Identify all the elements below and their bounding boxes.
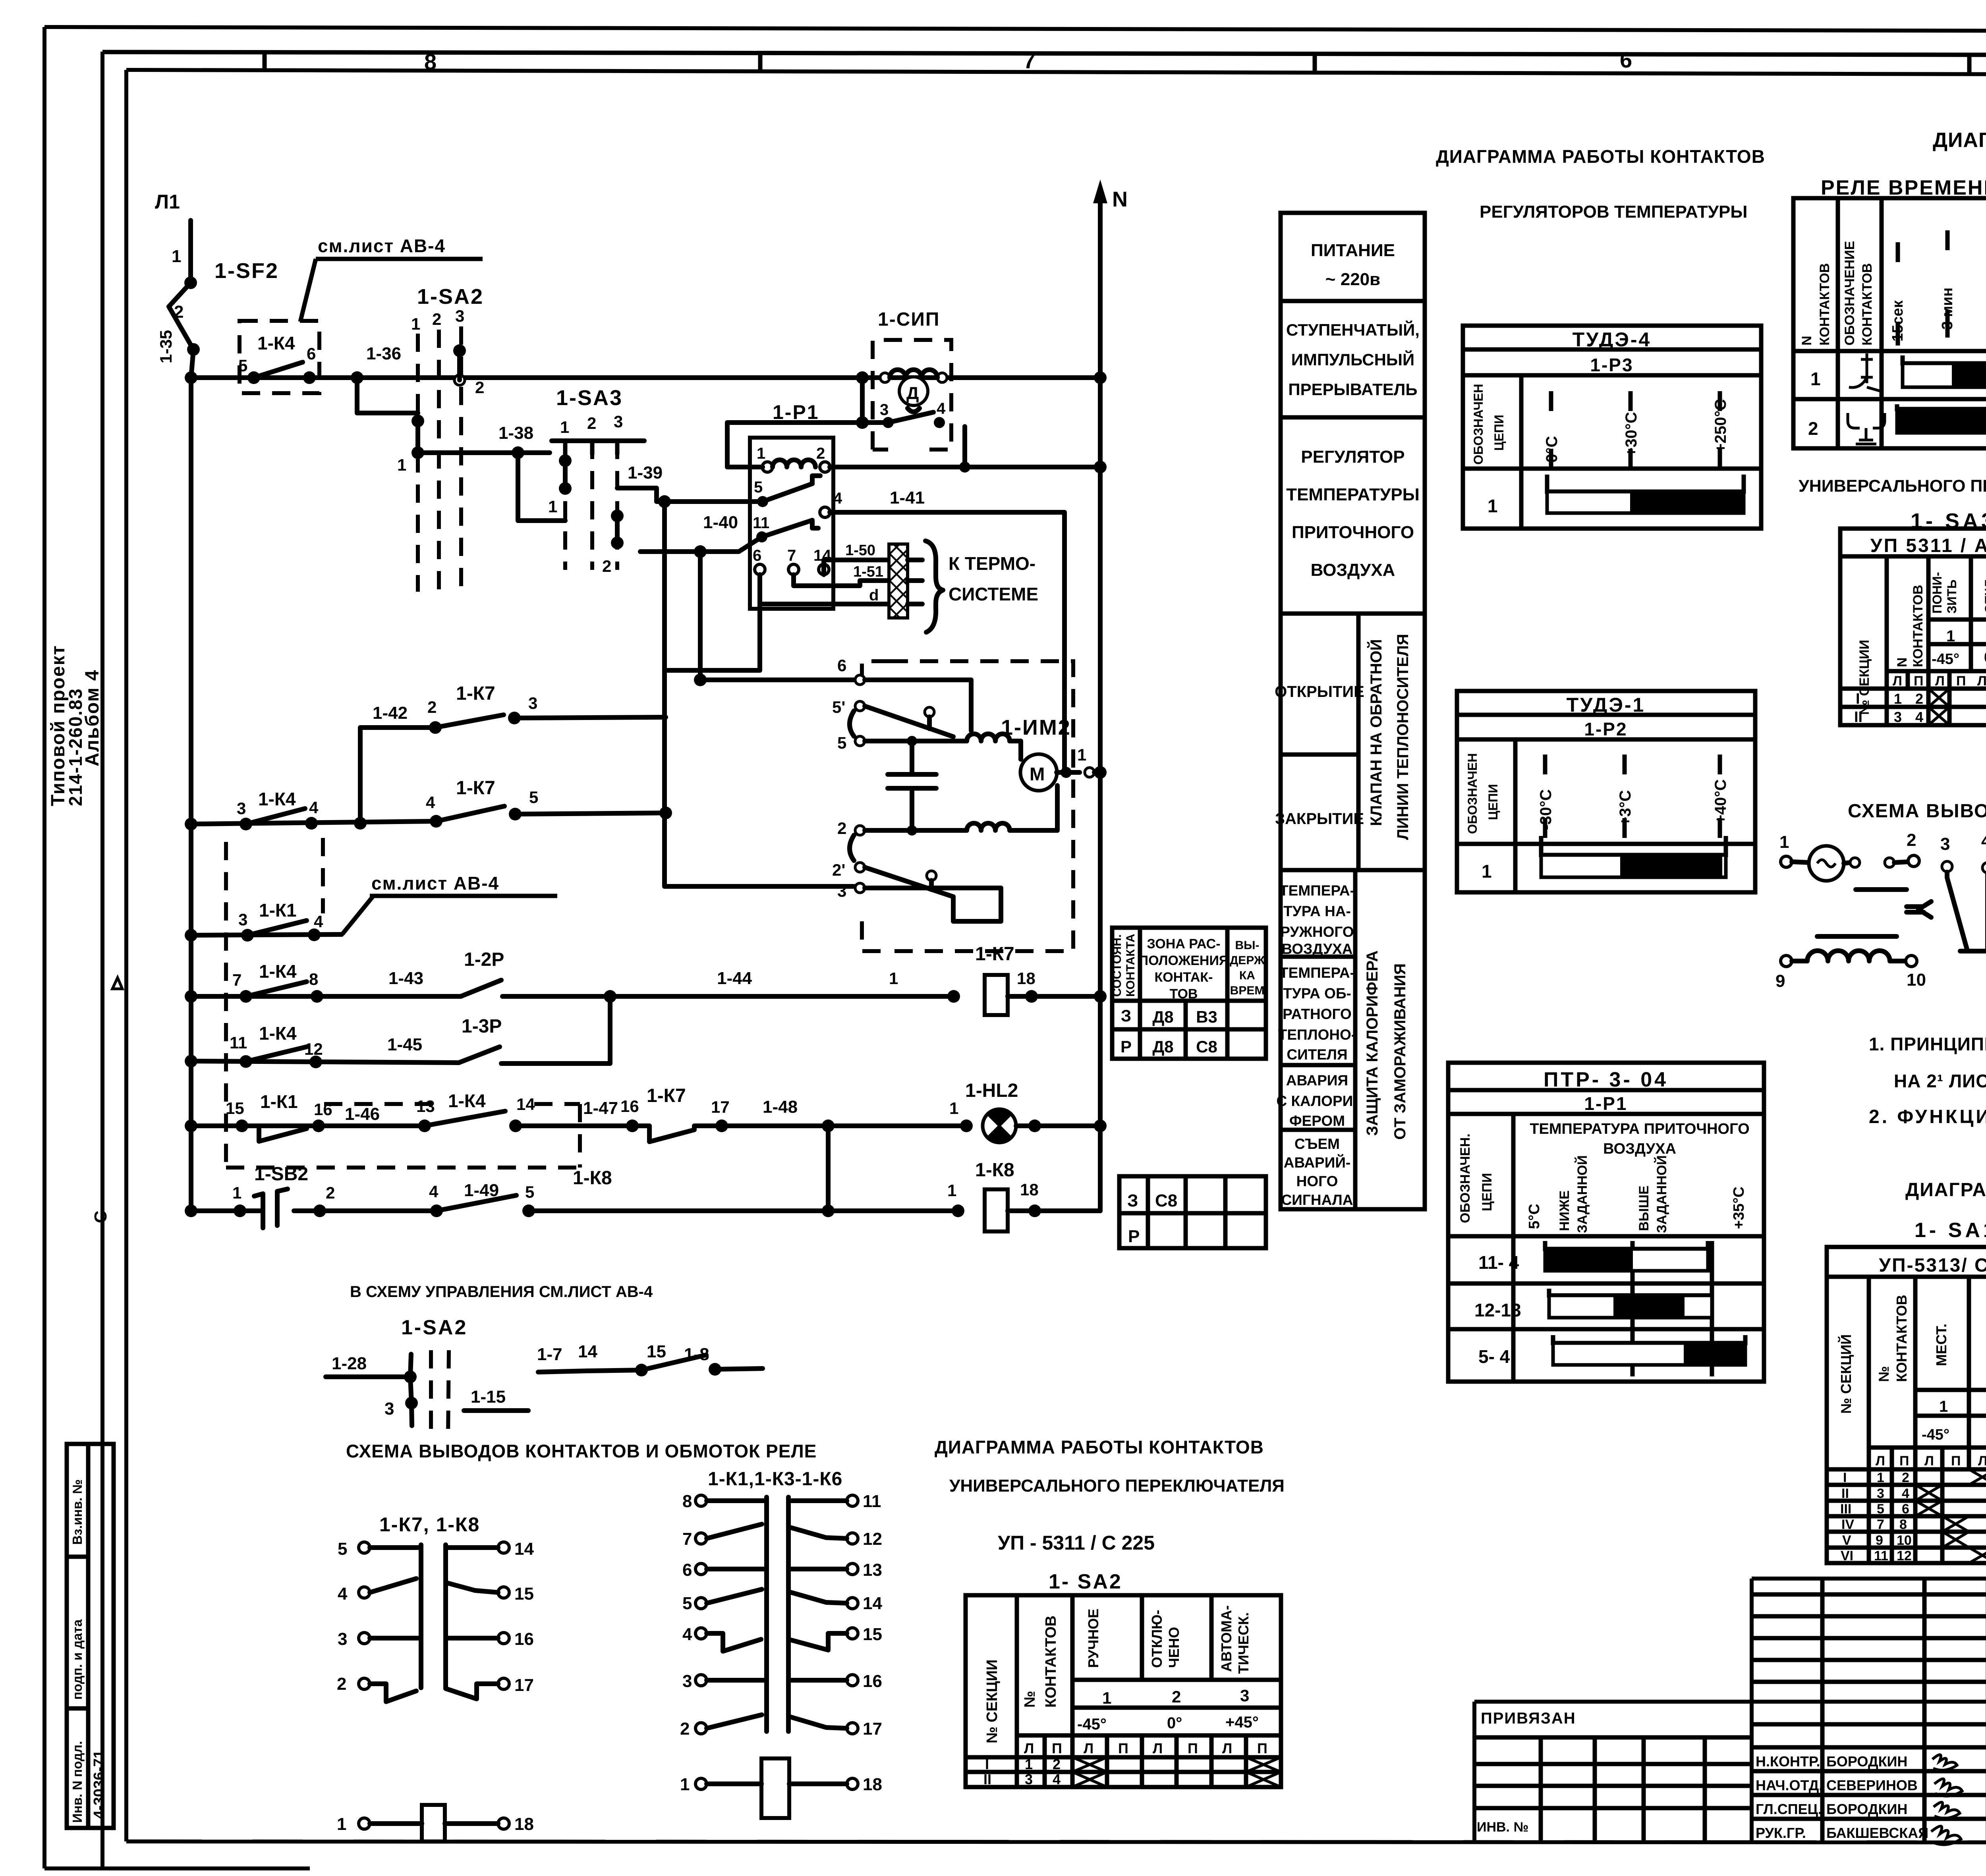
svg-text:+35°С: +35°С [1731, 1187, 1747, 1229]
svg-text:Л: Л [1978, 1453, 1986, 1469]
svg-text:3: 3 [528, 694, 537, 712]
svg-text:Д: Д [906, 384, 919, 403]
svg-text:Л: Л [1222, 1740, 1232, 1756]
svg-text:БАКШЕВСКАЯ: БАКШЕВСКАЯ [1826, 1825, 1928, 1841]
svg-text:ТЕМПЕРА-: ТЕМПЕРА- [1279, 965, 1355, 981]
switch 1-SA2 (universal switch section) [397, 285, 484, 592]
wire from 1-37 down to contact rail [860, 378, 865, 423]
svg-text:1: 1 [1482, 861, 1492, 882]
svg-text:1-К8: 1-К8 [573, 1168, 612, 1189]
svg-text:~ 220в: ~ 220в [1325, 270, 1380, 289]
svg-text:5: 5 [525, 1183, 534, 1201]
svg-text:1-7: 1-7 [537, 1345, 562, 1364]
leader see sheet AV-4 (top) [300, 235, 483, 322]
svg-text:11: 11 [230, 1033, 247, 1052]
svg-text:Л: Л [1084, 1740, 1093, 1756]
svg-text:1-38: 1-38 [498, 423, 533, 443]
svg-text:1-К7: 1-К7 [647, 1085, 686, 1106]
svg-text:N: N [1895, 657, 1910, 667]
svg-text:12: 12 [1897, 1548, 1912, 1563]
svg-text:Вз.инв. №: Вз.инв. № [70, 1479, 85, 1545]
wire link rows lamp/SB2 [826, 1126, 831, 1211]
svg-text:16: 16 [863, 1671, 882, 1691]
svg-text:4: 4 [426, 793, 435, 812]
relay pinout ladder 1-K7/1-K8 [337, 1539, 534, 1841]
svg-text:1-44: 1-44 [717, 969, 752, 988]
svg-text:1-ИМ2: 1-ИМ2 [1001, 716, 1071, 739]
svg-text:1- SA2: 1- SA2 [1049, 1570, 1122, 1593]
svg-text:С8: С8 [1196, 1037, 1217, 1056]
svg-text:4: 4 [309, 798, 319, 817]
svg-text:3: 3 [837, 882, 846, 900]
svg-text:Л: Л [1024, 1740, 1034, 1756]
svg-text:2: 2 [427, 698, 437, 716]
svg-text:1: 1 [337, 1814, 346, 1834]
svg-text:5: 5 [682, 1594, 692, 1613]
svg-text:УП 5311 / А225: УП 5311 / А225 [1870, 535, 1986, 556]
svg-text:С: С [91, 1210, 110, 1223]
upper grid columns [1820, 1579, 1825, 1843]
svg-text:4: 4 [1902, 1486, 1909, 1501]
svg-text:N: N [1112, 187, 1128, 211]
svg-text:10: 10 [1897, 1533, 1912, 1548]
svg-text:П: П [1257, 1740, 1267, 1756]
svg-text:VI: VI [1841, 1548, 1853, 1563]
svg-text:+45°: +45° [1225, 1714, 1259, 1731]
svg-text:РУЖНОГО: РУЖНОГО [1280, 924, 1354, 940]
svg-text:0°: 0° [1167, 1714, 1182, 1732]
svg-text:13: 13 [863, 1560, 882, 1580]
coil pins 9-10 [1817, 934, 1897, 939]
svg-text:АВАРИЙ-: АВАРИЙ- [1284, 1154, 1351, 1171]
svg-text:3: 3 [238, 910, 247, 929]
svg-text:СХЕМА ВЫВОДОВ КОНТАКТОВ И ОБМО: СХЕМА ВЫВОДОВ КОНТАКТОВ И ОБМОТОК РЕЛЕ 1… [1848, 801, 1986, 822]
svg-text:1-47: 1-47 [583, 1098, 618, 1118]
relay coil 1-K8 [975, 1160, 1100, 1231]
svg-text:7: 7 [682, 1529, 692, 1549]
svg-text:ТЕМПЕРАТУРА ПРИТОЧНОГО: ТЕМПЕРАТУРА ПРИТОЧНОГО [1530, 1121, 1749, 1137]
svg-text:N: N [1799, 336, 1814, 345]
svg-text:15: 15 [863, 1625, 882, 1644]
svg-text:1-К1,1-К3-1-К6: 1-К1,1-К3-1-К6 [708, 1469, 842, 1490]
svg-text:1-SA3: 1-SA3 [556, 386, 623, 410]
svg-text:11- 4: 11- 4 [1478, 1252, 1519, 1273]
svg-text:2: 2 [337, 1674, 346, 1694]
svg-text:В3: В3 [1196, 1007, 1217, 1026]
wire left rail [189, 378, 193, 1211]
left margin rotated project text [48, 645, 122, 1828]
contact 1-K1 3-4 with leader to AV-4 [185, 873, 557, 942]
svg-text:ФЕРОМ: ФЕРОМ [1289, 1113, 1345, 1129]
pulse device 1-SIP [873, 309, 951, 450]
coil of relay 1-P1 (pins 1-2) [773, 460, 815, 467]
svg-text:ЦЕПИ: ЦЕПИ [1480, 1173, 1495, 1211]
dashed box around 1-K1/1-K4 contacts [226, 1104, 580, 1168]
svg-text:2: 2 [432, 310, 441, 328]
svg-text:КОНТАКТОВ: КОНТАКТОВ [1893, 1295, 1910, 1382]
svg-text:ОТ ЗАМОРАЖИВАНИЯ: ОТ ЗАМОРАЖИВАНИЯ [1391, 963, 1409, 1140]
svg-text:15: 15 [514, 1584, 534, 1604]
AC source symbol (pins 1-2 of 1-K2) [1809, 846, 1844, 881]
svg-text:КОНТАКТОВ: КОНТАКТОВ [1860, 263, 1875, 345]
svg-text:1-К7: 1-К7 [975, 944, 1014, 965]
svg-text:1: 1 [1102, 1689, 1111, 1707]
svg-text:АВТОМА-: АВТОМА- [1218, 1605, 1234, 1672]
switch 1-SA3 [548, 386, 644, 575]
svg-text:1-К1: 1-К1 [259, 900, 297, 921]
svg-text:ЦЕПИ: ЦЕПИ [1486, 784, 1500, 820]
svg-text:ОБОЗНАЧЕН.: ОБОЗНАЧЕН. [1458, 1133, 1473, 1223]
svg-text:5': 5' [832, 698, 845, 716]
svg-text:Л: Л [1935, 674, 1945, 689]
svg-text:1-HL2: 1-HL2 [965, 1080, 1018, 1101]
svg-text:Инв. N подл.: Инв. N подл. [70, 1741, 85, 1823]
svg-text:СИТЕЛЯ: СИТЕЛЯ [1287, 1046, 1347, 1063]
svg-text:СИГНАЛА: СИГНАЛА [1281, 1192, 1353, 1208]
big outline [1752, 1577, 1986, 1581]
svg-text:8: 8 [682, 1492, 692, 1511]
svg-text:6: 6 [1620, 47, 1632, 72]
svg-text:ТЕМПЕРАТУРЫ: ТЕМПЕРАТУРЫ [1286, 485, 1420, 504]
svg-text:ТЕМПЕРА-: ТЕМПЕРА- [1279, 882, 1355, 899]
svg-text:5°С: 5°С [1526, 1204, 1543, 1229]
contact glyph row2 [1848, 413, 1885, 444]
svg-text:1-46: 1-46 [345, 1104, 380, 1124]
svg-text:С8: С8 [1155, 1191, 1177, 1210]
svg-text:1-К4: 1-К4 [259, 961, 297, 982]
lamp 1-HL2 [965, 1080, 1100, 1143]
svg-text:3: 3 [237, 799, 246, 818]
svg-text:СОСТОЯН.: СОСТОЯН. [1111, 934, 1124, 997]
svg-text:ТИЧЕСК.: ТИЧЕСК. [1235, 1612, 1252, 1674]
svg-text:Л: Л [1153, 1740, 1163, 1756]
svg-text:-45°: -45° [1932, 651, 1959, 668]
svg-text:3: 3 [614, 412, 623, 431]
svg-text:1: 1 [232, 1183, 241, 1202]
bus N [1093, 179, 1128, 1211]
svg-text:ДИАГРАММА РАБОТЫ КОНТАКТОВ: ДИАГРАММА РАБОТЫ КОНТАКТОВ [1933, 129, 1986, 152]
svg-text:II: II [1854, 709, 1862, 726]
svg-text:В СХЕМУ УПРАВЛЕНИЯ СМ.ЛИСТ АВ-: В СХЕМУ УПРАВЛЕНИЯ СМ.ЛИСТ АВ-4 [350, 1283, 653, 1301]
svg-text:2: 2 [816, 445, 825, 462]
svg-text:3: 3 [880, 401, 889, 419]
wire 1-38 [418, 450, 550, 455]
svg-text:АВАРИЯ: АВАРИЯ [1286, 1072, 1348, 1089]
svg-text:3: 3 [1940, 834, 1950, 854]
contact 1-K4 5-6 (in dashed box) [238, 321, 319, 393]
svg-text:1-К7: 1-К7 [456, 778, 495, 799]
svg-text:СХЕМА ВЫВОДОВ КОНТАКТОВ И ОБМО: СХЕМА ВЫВОДОВ КОНТАКТОВ И ОБМОТОК РЕЛЕ [346, 1441, 817, 1461]
svg-text:14: 14 [863, 1594, 882, 1613]
svg-text:ПТР- 3- 04: ПТР- 3- 04 [1544, 1068, 1668, 1091]
wire row 1-43 / 1-2P / 1-44 [185, 949, 960, 1003]
capacitor of 1-IM2 [888, 772, 936, 777]
svg-text:I: I [985, 1756, 989, 1772]
svg-text:4: 4 [314, 912, 323, 931]
svg-text:ВОЗДУХА: ВОЗДУХА [1603, 1141, 1676, 1157]
switch fragment 1-SA2 (1-28 / 1-15) [326, 1350, 528, 1438]
svg-text:ЗАДАННОЙ: ЗАДАННОЙ [1575, 1155, 1590, 1233]
svg-text:П: П [1956, 674, 1966, 689]
svg-text:Л1: Л1 [155, 191, 180, 213]
svg-text:1-SA2: 1-SA2 [417, 285, 484, 309]
contact glyph row1 [1849, 353, 1881, 391]
svg-text:подп. и дата: подп. и дата [70, 1619, 85, 1700]
svg-text:V: V [1842, 1533, 1851, 1548]
svg-text:1: 1 [949, 1099, 958, 1117]
svg-text:14: 14 [516, 1095, 535, 1114]
svg-text:П: П [1914, 674, 1923, 689]
svg-text:ЛИНИИ ТЕПЛОНОСИТЕЛЯ: ЛИНИИ ТЕПЛОНОСИТЕЛЯ [1394, 634, 1412, 840]
svg-text:18: 18 [1020, 1180, 1039, 1199]
svg-text:12-13: 12-13 [1474, 1300, 1521, 1320]
svg-text:1-Р3: 1-Р3 [1590, 355, 1633, 375]
svg-text:14: 14 [514, 1539, 534, 1559]
svg-text:ОБОЗНАЧЕН: ОБОЗНАЧЕН [1465, 753, 1480, 834]
svg-text:З: З [1127, 1191, 1138, 1210]
svg-text:СЪЕМ: СЪЕМ [1294, 1136, 1340, 1152]
svg-text:ВРЕМ: ВРЕМ [1230, 984, 1265, 997]
svg-text:ОТКРЫТИЕ: ОТКРЫТИЕ [1275, 683, 1364, 701]
svg-text:+40°С: +40°С [1712, 779, 1729, 824]
svg-text:6: 6 [753, 547, 761, 564]
svg-text:3: 3 [384, 1399, 394, 1419]
svg-text:1: 1 [1488, 496, 1498, 516]
svg-text:d: d [869, 587, 879, 604]
svg-text:1-К4: 1-К4 [258, 789, 296, 809]
svg-text:Л: Л [1977, 674, 1986, 689]
svg-text:ОТКЛ.: ОТКЛ. [1982, 576, 1986, 614]
svg-text:КОНТАК-: КОНТАК- [1154, 970, 1213, 985]
svg-text:ПРИТОЧНОГО: ПРИТОЧНОГО [1292, 523, 1414, 542]
svg-text:см.лист АВ-4: см.лист АВ-4 [371, 873, 499, 894]
zone table Z2 [1119, 1176, 1266, 1248]
svg-text:-45°: -45° [1922, 1426, 1949, 1443]
svg-text:4: 4 [682, 1625, 692, 1644]
svg-text:1-К4: 1-К4 [259, 1023, 297, 1044]
svg-text:2: 2 [587, 414, 596, 432]
svg-text:1-К4: 1-К4 [448, 1090, 486, 1111]
svg-text:ДИАГРАММЫ РАБОТЫ КОНТАКТОВ: ДИАГРАММЫ РАБОТЫ КОНТАКТОВ [1905, 1179, 1986, 1200]
svg-text:М: М [1030, 764, 1045, 784]
svg-text:17: 17 [863, 1719, 882, 1739]
svg-text:ТУРА ОБ-: ТУРА ОБ- [1283, 985, 1351, 1002]
svg-text:1-К8: 1-К8 [975, 1160, 1014, 1181]
svg-text:1-СИП: 1-СИП [878, 309, 940, 330]
svg-text:1: 1 [1779, 832, 1789, 852]
svg-text:П: П [1899, 1453, 1909, 1469]
svg-text:2: 2 [1053, 1756, 1061, 1772]
svg-text:З: З [1121, 1006, 1131, 1025]
wire drop to 1-SA2 [357, 378, 418, 413]
svg-text:П: П [1188, 1740, 1198, 1756]
svg-text:БОРОДКИН: БОРОДКИН [1826, 1753, 1907, 1770]
svg-text:1: 1 [1939, 1398, 1948, 1415]
svg-text:КОНТАКТОВ: КОНТАКТОВ [1911, 585, 1926, 667]
left bottom stamp boxes [67, 1444, 114, 1828]
svg-text:РЕГУЛЯТОРОВ ТЕМПЕРАТУРЫ: РЕГУЛЯТОРОВ ТЕМПЕРАТУРЫ [1480, 202, 1747, 222]
svg-text:УП - 5311 / С 225: УП - 5311 / С 225 [998, 1532, 1155, 1554]
wire pin2 rail to N bus [830, 465, 1100, 469]
svg-text:Н.КОНТР.: Н.КОНТР. [1756, 1753, 1820, 1770]
coil of 1-SIP on wire 1-37 [890, 370, 937, 378]
svg-text:2: 2 [326, 1183, 335, 1202]
coil winding of 1-K2 (pins 9-10) [1807, 951, 1890, 961]
svg-text:1-48: 1-48 [763, 1097, 798, 1117]
svg-text:1-2Р: 1-2Р [464, 949, 504, 970]
svg-text:3: 3 [1025, 1771, 1033, 1787]
relay block 1-P1 [750, 401, 842, 609]
svg-text:ЗОНА РАС-: ЗОНА РАС- [1147, 936, 1220, 952]
svg-text:-45°: -45° [1077, 1716, 1107, 1733]
svg-text:5: 5 [238, 356, 247, 375]
svg-text:1: 1 [172, 247, 181, 266]
svg-text:1-45: 1-45 [387, 1035, 422, 1054]
breaker 1-SF2 [169, 247, 279, 378]
svg-text:15: 15 [647, 1342, 666, 1361]
relay coil 1-K7 [975, 944, 1100, 1015]
svg-text:2: 2 [837, 819, 846, 838]
svg-text:7: 7 [1877, 1517, 1884, 1532]
svg-text:3: 3 [455, 307, 464, 325]
wire pin1 loop to 1-P1 top rail [727, 423, 888, 467]
svg-text:Д8: Д8 [1152, 1007, 1173, 1026]
svg-text:1: 1 [1877, 1470, 1884, 1485]
svg-text:ОТКЛЮ-: ОТКЛЮ- [1149, 1610, 1165, 1668]
svg-text:6: 6 [837, 656, 846, 675]
svg-text:№: № [1022, 1691, 1038, 1708]
svg-text:II: II [1841, 1486, 1849, 1501]
svg-text:ПРИВЯЗАН: ПРИВЯЗАН [1481, 1710, 1576, 1727]
signatures squiggles [1931, 1755, 1962, 1845]
svg-text:1: 1 [947, 1181, 956, 1200]
svg-text:НА 2¹ ЛИСТАХ: АВ-4, АВ-5: НА 2¹ ЛИСТАХ: АВ-4, АВ-5 [1894, 1071, 1986, 1091]
svg-text:Л: Л [1924, 1453, 1934, 1469]
svg-text:СИСТЕМЕ: СИСТЕМЕ [949, 584, 1038, 604]
indicator D of 1-SIP [899, 377, 928, 405]
svg-text:18: 18 [1017, 969, 1036, 988]
svg-text:ТУДЭ-4: ТУДЭ-4 [1573, 328, 1652, 351]
svg-text:8: 8 [309, 970, 318, 988]
svg-text:2: 2 [475, 378, 484, 397]
svg-text:1: 1 [680, 1775, 690, 1794]
svg-text:НАЧ.ОТД.: НАЧ.ОТД. [1756, 1777, 1823, 1793]
svg-text:РУЧНОЕ: РУЧНОЕ [1085, 1609, 1101, 1668]
svg-text:ДИАГРАММА РАБОТЫ КОНТАКТОВ: ДИАГРАММА РАБОТЫ КОНТАКТОВ [1436, 146, 1765, 167]
svg-text:1-51: 1-51 [853, 564, 883, 580]
svg-text:П: П [1118, 1740, 1128, 1756]
svg-text:2. ФУНКЦИОНАЛЬНАЯ СХЕМА - СМ.: 2. ФУНКЦИОНАЛЬНАЯ СХЕМА - СМ.ЛИСТ АВ-3. [1869, 1106, 1986, 1127]
svg-text:Л: Л [1876, 1453, 1885, 1469]
svg-text:1-43: 1-43 [388, 969, 423, 988]
svg-text:4: 4 [1981, 831, 1986, 851]
svg-text:ВЫШЕ: ВЫШЕ [1636, 1185, 1652, 1231]
svg-text:0°: 0° [1984, 649, 1986, 666]
zone table Z1 [1111, 928, 1266, 1059]
svg-text:УП-5313/ С314: УП-5313/ С314 [1879, 1255, 1986, 1276]
svg-text:5: 5 [529, 788, 538, 807]
svg-text:5: 5 [754, 479, 763, 496]
svg-text:С КАЛОРИ-: С КАЛОРИ- [1276, 1093, 1358, 1109]
svg-text:1-К7: 1-К7 [456, 683, 495, 704]
svg-text:КЛАПАН НА ОБРАТНОЙ: КЛАПАН НА ОБРАТНОЙ [1367, 639, 1385, 826]
svg-text:Р: Р [1128, 1227, 1140, 1246]
svg-text:12: 12 [863, 1529, 882, 1549]
svg-text:8: 8 [1899, 1517, 1907, 1532]
svg-text:ТЕПЛОНО-: ТЕПЛОНО- [1278, 1027, 1356, 1043]
motor M of 1-IM2 [1020, 754, 1057, 791]
svg-text:3: 3 [1894, 709, 1902, 725]
wire row 1-45 / 1-3P [185, 996, 610, 1068]
svg-text:2: 2 [1808, 418, 1818, 439]
svg-text:1-40: 1-40 [703, 513, 738, 532]
winding upper of 1-IM2 [967, 734, 1010, 741]
svg-text:2: 2 [1902, 1470, 1909, 1485]
svg-text:1-42: 1-42 [373, 703, 408, 723]
svg-text:1-SA2: 1-SA2 [401, 1316, 468, 1339]
svg-text:ЗАКРЫТИЕ: ЗАКРЫТИЕ [1275, 810, 1364, 828]
svg-text:2: 2 [1907, 830, 1916, 850]
svg-text:7: 7 [787, 547, 796, 564]
svg-text:18: 18 [863, 1775, 882, 1794]
svg-text:16: 16 [514, 1629, 534, 1649]
svg-text:6: 6 [1902, 1502, 1909, 1517]
svg-text:П: П [1951, 1453, 1961, 1469]
svg-text:№: № [1876, 1366, 1892, 1382]
svg-text:Д8: Д8 [1152, 1037, 1173, 1056]
svg-text:КОНТАКТА: КОНТАКТА [1124, 934, 1137, 997]
svg-text:см.лист АВ-4: см.лист АВ-4 [318, 235, 446, 256]
svg-text:4: 4 [1915, 709, 1923, 725]
svg-text:ДИАГРАММА РАБОТЫ КОНТАКТОВ: ДИАГРАММА РАБОТЫ КОНТАКТОВ [935, 1437, 1264, 1457]
zone tick triangle [112, 978, 122, 989]
svg-text:ВЫ-: ВЫ- [1235, 939, 1259, 952]
svg-text:Л: Л [1893, 674, 1902, 689]
svg-text:13: 13 [416, 1097, 435, 1116]
winding lower of 1-IM2 [967, 823, 1010, 830]
svg-text:ИНВ. №: ИНВ. № [1477, 1820, 1528, 1835]
wire L1 drop [188, 220, 193, 278]
svg-text:1-41: 1-41 [890, 488, 925, 508]
svg-text:УНИВЕРСАЛЬНОГО ПЕРЕКЛЮЧАТЕЛЯ: УНИВЕРСАЛЬНОГО ПЕРЕКЛЮЧАТЕЛЯ [949, 1476, 1285, 1496]
svg-text:3: 3 [338, 1629, 347, 1649]
svg-text:ЗАДАННОЙ: ЗАДАННОЙ [1654, 1155, 1669, 1233]
svg-text:БОРОДКИН: БОРОДКИН [1826, 1801, 1907, 1817]
svg-text:4: 4 [833, 490, 842, 507]
svg-text:1- SA1: 1- SA1 [1915, 1219, 1986, 1242]
svg-text:4-3036-71: 4-3036-71 [91, 1750, 108, 1819]
svg-text:1-Р1: 1-Р1 [1584, 1093, 1627, 1114]
svg-text:ДЕРЖ: ДЕРЖ [1230, 954, 1265, 967]
svg-text:II: II [983, 1771, 991, 1787]
svg-text:2': 2' [832, 861, 845, 879]
wire riser B [698, 552, 703, 680]
svg-text:7: 7 [232, 971, 241, 989]
svg-text:10: 10 [1907, 970, 1926, 990]
vertical link SIP out / pin2 rail [962, 427, 967, 467]
wire row 1-42 (1-K4 3-4 / 1-K7 4-5) [185, 683, 672, 830]
signature rows [1756, 1753, 1928, 1841]
svg-text:4: 4 [937, 400, 946, 417]
svg-text:17: 17 [711, 1098, 730, 1116]
svg-text:III: III [1840, 1502, 1851, 1517]
svg-text:8: 8 [424, 49, 437, 74]
svg-text:I: I [1856, 691, 1860, 707]
svg-text:1: 1 [1894, 691, 1902, 707]
svg-text:14: 14 [578, 1342, 597, 1361]
svg-text:1-SВ2: 1-SВ2 [254, 1164, 308, 1185]
svg-text:1: 1 [1810, 369, 1821, 389]
